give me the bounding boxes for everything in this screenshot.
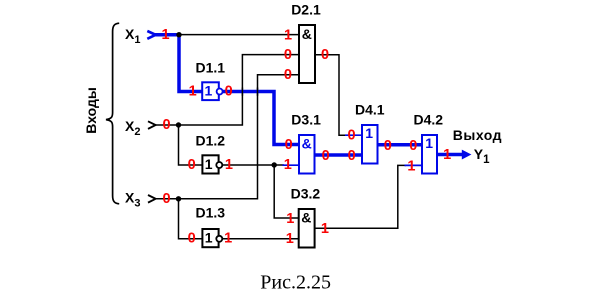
svg-text:D1.2: D1.2: [196, 132, 226, 148]
svg-text:D2.1: D2.1: [291, 1, 321, 17]
svg-text:1: 1: [286, 211, 294, 227]
svg-text:0: 0: [285, 137, 293, 153]
svg-text:0: 0: [188, 157, 196, 173]
svg-text:0: 0: [348, 128, 356, 144]
svg-text:Рис.2.25: Рис.2.25: [260, 272, 331, 294]
svg-text:1: 1: [321, 221, 329, 237]
svg-text:1: 1: [425, 135, 433, 151]
brace for inputs: [106, 23, 119, 204]
wire D1.3 output to D3.2 pin2: [222, 238, 300, 240]
input arrow X3: [148, 195, 156, 203]
svg-text:D4.2: D4.2: [414, 111, 444, 127]
svg-text:&: &: [302, 26, 312, 42]
wire X3 to riser and D2.1 pin3: [155, 75, 299, 199]
wire X1 input to junction (blue): [153, 33, 179, 37]
svg-text:Входы: Входы: [83, 87, 99, 134]
svg-text:1: 1: [284, 27, 292, 43]
input arrow X2: [148, 121, 156, 129]
svg-text:0: 0: [321, 47, 329, 63]
svg-text:0: 0: [384, 138, 392, 154]
NOT gate D1.3: [202, 229, 218, 247]
svg-text:1: 1: [162, 27, 170, 43]
svg-text:D1.1: D1.1: [196, 60, 226, 76]
inversion bubble D1.1: [217, 89, 223, 95]
svg-text:0: 0: [284, 67, 292, 83]
wire X2 down to D1.2 input: [179, 125, 204, 165]
wire X2 to riser and D2.1 pin2: [155, 55, 299, 125]
wire D1.1 output to D3.1 pin1 (blue): [223, 92, 300, 145]
svg-text:0: 0: [348, 148, 356, 164]
output arrowhead Y1: [462, 150, 472, 160]
svg-text:0: 0: [163, 191, 171, 207]
svg-text:D1.3: D1.3: [196, 205, 226, 221]
svg-text:1: 1: [205, 83, 213, 99]
wire D1.2 output to D3.1 pin2: [222, 164, 284, 166]
wire X1 down to D1.1 input (blue): [179, 35, 202, 92]
svg-text:0: 0: [225, 84, 233, 100]
svg-text:0: 0: [322, 148, 330, 164]
wire D3.1 output to D4.1 pin2 (blue): [315, 153, 363, 157]
svg-text:1: 1: [225, 157, 233, 173]
OR gate D4.2: [422, 135, 437, 174]
wire D1.2 junction down to D3.2 pin1: [274, 165, 300, 218]
wire D3.2 output to D4.2 pin2: [315, 165, 407, 228]
wire D2.1 output to D4.1 pin1: [315, 55, 346, 135]
NOT gate D1.2: [202, 155, 218, 173]
inversion bubble D1.3: [216, 236, 222, 242]
svg-text:1: 1: [205, 156, 213, 172]
svg-text:D4.1: D4.1: [355, 101, 385, 117]
svg-text:&: &: [301, 209, 311, 225]
inversion bubble D1.2: [216, 162, 222, 168]
junction X2: [176, 122, 181, 127]
svg-text:0: 0: [284, 47, 292, 63]
svg-text:Выход: Выход: [453, 127, 502, 143]
AND gate D2.1: [299, 25, 315, 83]
blue input stub D4.1 pin1: [345, 134, 362, 136]
wire X2 riser over blue crossing: [241, 88, 243, 96]
AND gate D3.1: [299, 135, 315, 174]
wire X1 junction to D2.1 pin1: [179, 34, 299, 36]
svg-text:1: 1: [443, 147, 451, 163]
svg-text:1: 1: [189, 84, 197, 100]
svg-text:D3.1: D3.1: [291, 111, 321, 127]
OR gate D4.1: [362, 125, 378, 164]
svg-text:1: 1: [205, 229, 213, 245]
svg-text:1: 1: [407, 159, 415, 175]
input arrow X1: [147, 31, 155, 39]
svg-text:0: 0: [163, 117, 171, 133]
junction X3: [176, 196, 181, 201]
blue input stub D3.1 pin2: [283, 164, 300, 166]
wire X3 down to D1.3 input: [179, 199, 204, 239]
svg-text:1: 1: [284, 157, 292, 173]
svg-text:1: 1: [224, 231, 232, 247]
wire X3 riser over blue crossing: [257, 88, 259, 96]
svg-text:0: 0: [409, 138, 417, 154]
wire D4.2 output Y1 (blue): [437, 153, 463, 157]
junction X1: [176, 32, 181, 37]
wire D4.1 output to D4.2 pin1 (blue): [378, 143, 423, 147]
svg-text:1: 1: [365, 125, 373, 141]
junction D1.2 output: [272, 162, 277, 167]
svg-text:D3.2: D3.2: [291, 185, 321, 201]
svg-text:&: &: [302, 135, 312, 151]
blue input stub D4.2 pin2: [405, 164, 423, 166]
NOT gate D1.1: [202, 82, 219, 100]
svg-text:1: 1: [286, 231, 294, 247]
AND gate D3.2: [299, 209, 315, 248]
svg-text:0: 0: [188, 231, 196, 247]
